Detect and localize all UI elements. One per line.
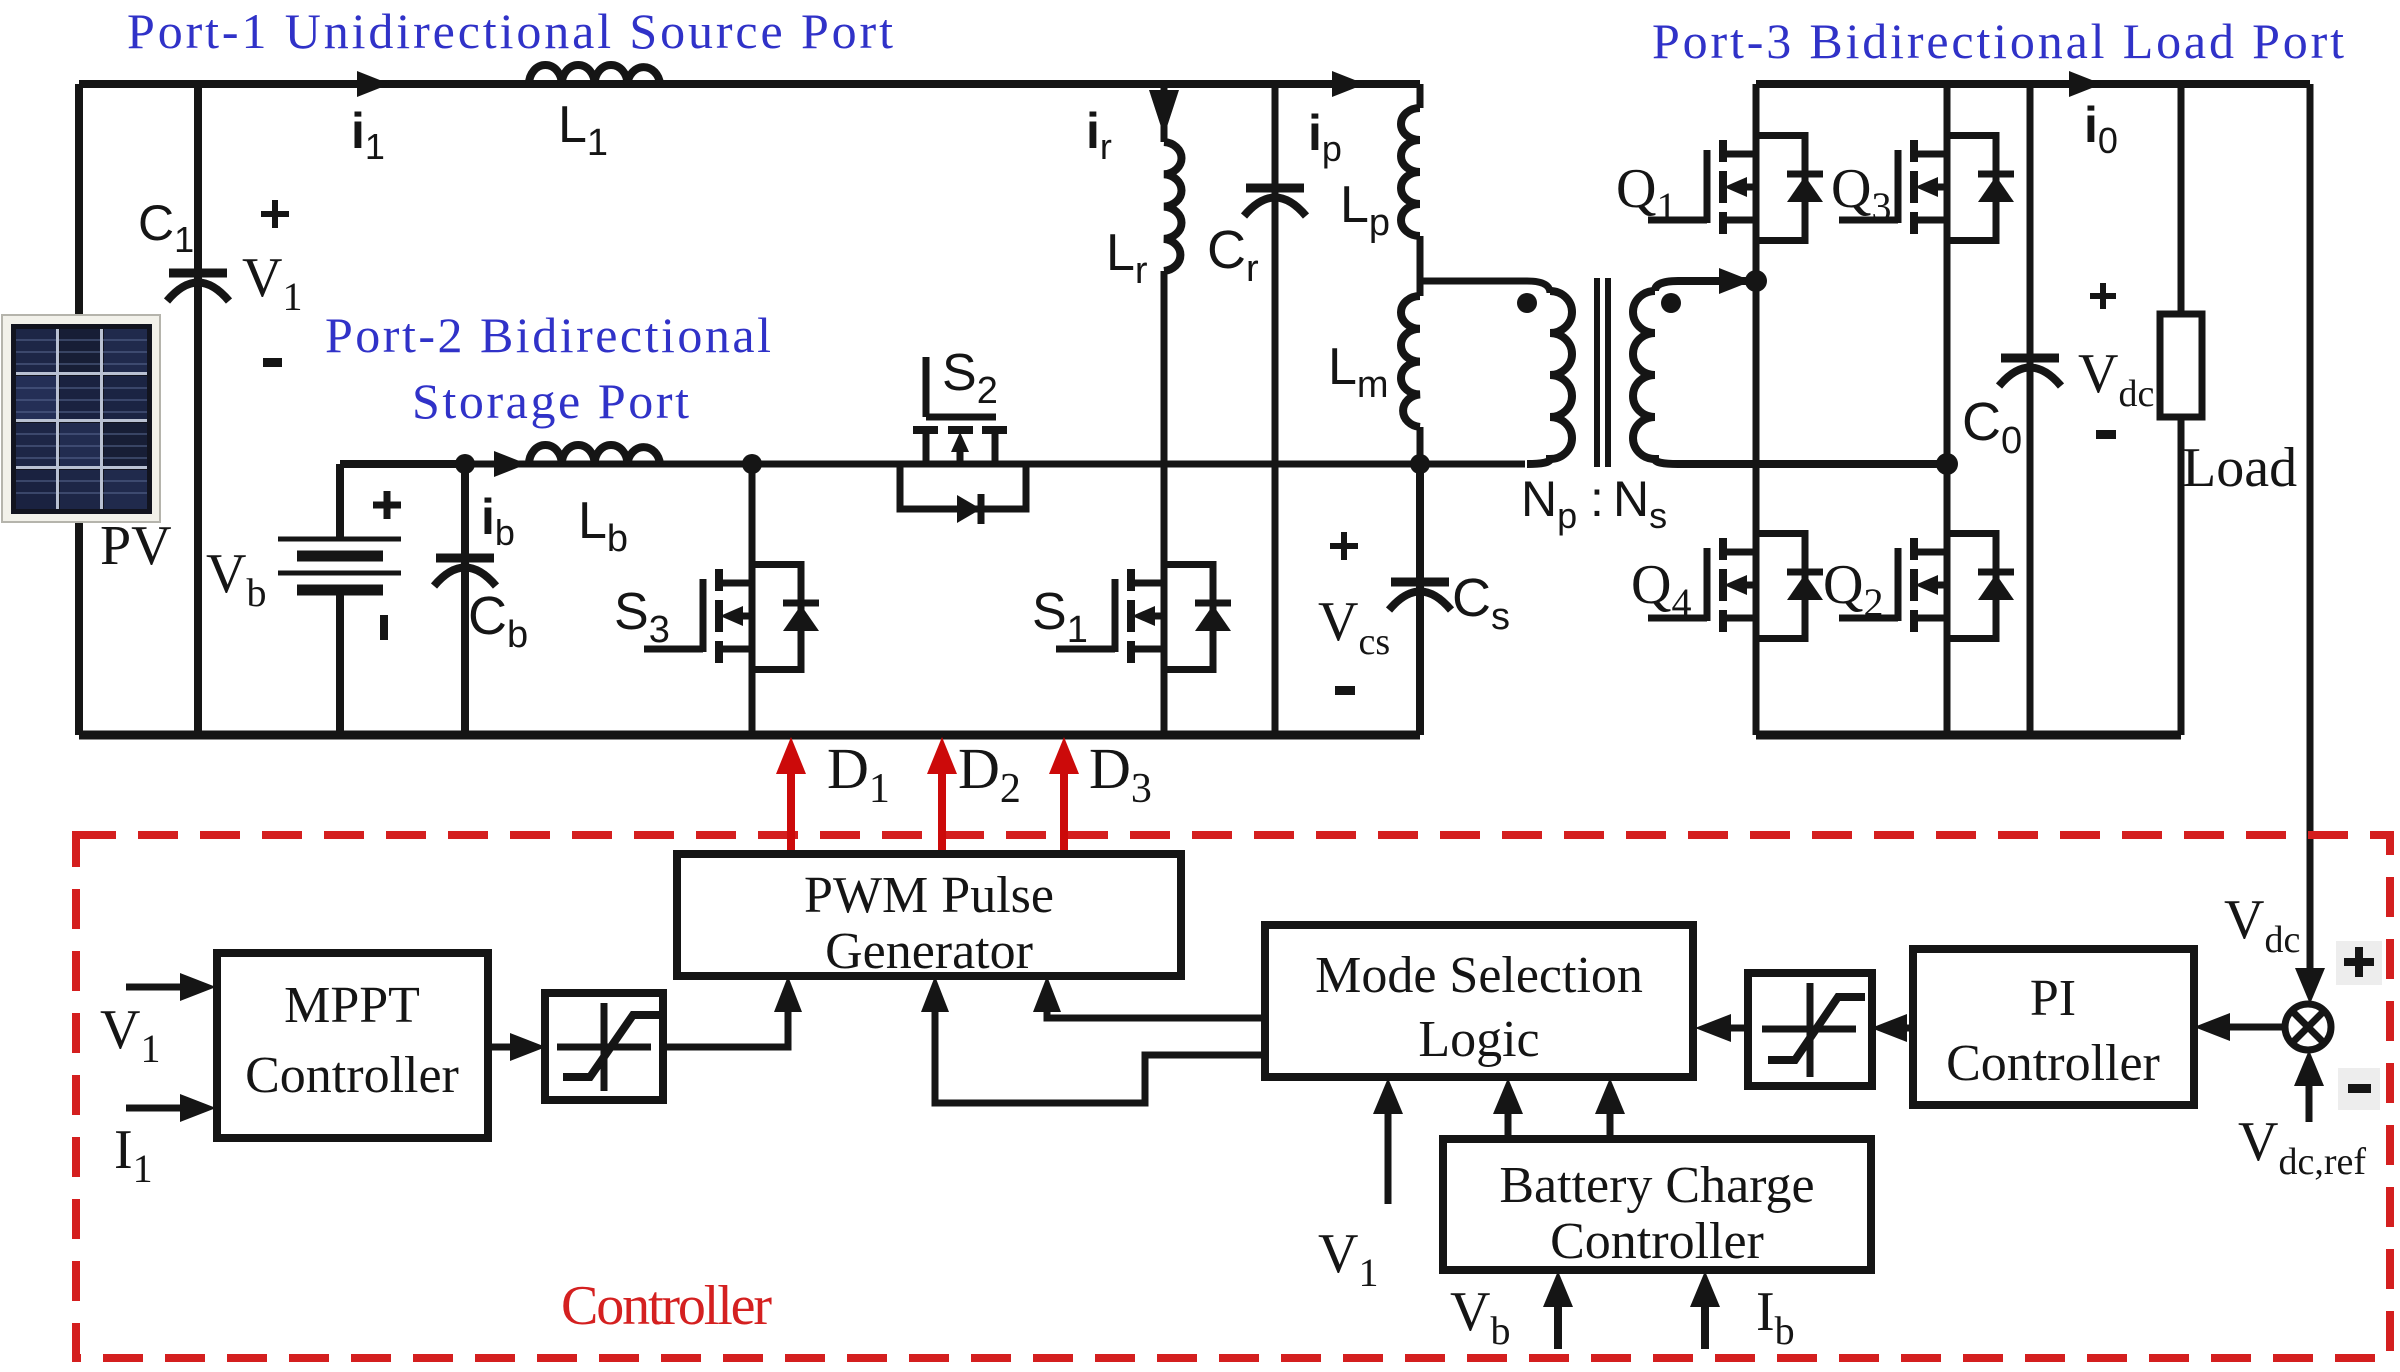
svg-text:Np:Ns: Np:Ns [1521, 471, 1667, 536]
svg-text:Vb: Vb [1450, 1281, 1510, 1353]
inductor Lp [1401, 108, 1420, 236]
wire mid bus [465, 461, 1525, 468]
wire battery branch [340, 464, 465, 735]
node battery junction [455, 454, 475, 474]
label plus Vcs [1330, 532, 1358, 560]
svg-text:Controller: Controller [245, 1047, 459, 1104]
box MPPT Controller [217, 953, 492, 1142]
arrow Vdc into sum [2295, 968, 2325, 1004]
wire Lr to S1 [1161, 271, 1168, 561]
svg-text:D2: D2 [958, 736, 1021, 812]
svg-text:Lr: Lr [1106, 224, 1148, 292]
arrow Vb into BCC [1543, 1271, 1573, 1349]
svg-text:PWM Pulse: PWM Pulse [804, 867, 1054, 924]
wire Q2 leg [1944, 464, 1951, 735]
svg-text:ip: ip [1308, 105, 1342, 169]
inductor L1 [529, 65, 660, 84]
wire MSL to PWM lower [935, 1010, 1265, 1103]
label minus V1 [263, 358, 282, 367]
node primary dot [1517, 293, 1537, 313]
wire Vdc sense vertical [2307, 84, 2314, 975]
svg-text:Load: Load [2182, 437, 2297, 499]
svg-text:D1: D1 [827, 736, 890, 812]
svg-text:ir: ir [1086, 103, 1112, 167]
label plus battery [373, 491, 401, 519]
arrow i0 [2069, 71, 2102, 97]
svg-text:PI: PI [2030, 970, 2076, 1027]
svg-text:V1: V1 [100, 999, 160, 1071]
wire S3 drain leg [749, 464, 756, 561]
box PWM Pulse Generator [677, 854, 1185, 980]
wire S3 source leg [749, 673, 756, 735]
svg-text:Ib: Ib [1756, 1281, 1795, 1353]
capacitor C0 [1999, 358, 2061, 386]
arrow limiter2 to MSL [1695, 1014, 1748, 1042]
svg-text:Vdc: Vdc [2078, 343, 2154, 415]
wire Q3 leg [1944, 84, 1951, 464]
svg-text:S1: S1 [1032, 583, 1088, 651]
svg-text:L1: L1 [558, 96, 608, 164]
svg-text:Lb: Lb [578, 492, 628, 560]
wire C0 branch [2027, 84, 2034, 735]
arrow into PWM bottom 2 [1033, 976, 1061, 1012]
capacitor C1 [167, 273, 229, 301]
svg-text:Controller: Controller [1550, 1213, 1764, 1270]
svg-text:C1: C1 [138, 195, 194, 260]
PV panel image [2, 315, 160, 522]
box Mode Selection Logic [1265, 925, 1697, 1077]
transformer primary winding [1527, 291, 1572, 464]
arrow MPPT to limiter [488, 1033, 546, 1061]
arrow ip [1332, 71, 1365, 97]
svg-text:Cr: Cr [1207, 220, 1259, 290]
label plus sum [2336, 941, 2382, 985]
title Port-2 Bidirectional Storage Port [325, 307, 771, 429]
node secondary dot [1661, 293, 1681, 313]
wire S1 source leg [1161, 673, 1168, 735]
svg-text:Vcs: Vcs [1318, 591, 1390, 663]
svg-text:Q3: Q3 [1831, 158, 1891, 229]
svg-text:Vdc: Vdc [2224, 889, 2300, 961]
svg-text:Controller: Controller [1946, 1035, 2160, 1092]
svg-text:i0: i0 [2084, 97, 2118, 161]
svg-text:Lp: Lp [1340, 176, 1390, 244]
wire secondary top [1655, 281, 1756, 291]
node bridge right mid [1936, 453, 1958, 475]
svg-text:Vb: Vb [206, 543, 266, 615]
svg-text:Mode Selection: Mode Selection [1315, 947, 1643, 1004]
arrow into PWM bottom 3 [921, 976, 949, 1012]
transformer core [1597, 278, 1608, 467]
arrow Ib into BCC [1690, 1271, 1720, 1349]
svg-text:S2: S2 [942, 344, 998, 412]
svg-text:C0: C0 [1962, 392, 2022, 462]
wire Lp Lm branch [1417, 84, 1424, 464]
svg-text:Lm: Lm [1328, 338, 1389, 406]
wire top rail port-3 [1756, 80, 2310, 88]
svg-text:V1: V1 [242, 247, 302, 319]
inductor Lr [1164, 142, 1182, 271]
arrow BCC to MSL 1 [1493, 1078, 1523, 1139]
label minus Vdc [2096, 430, 2116, 439]
arrow V1 into MSL [1373, 1078, 1403, 1204]
svg-text:Port-2 Bidirectional: Port-2 Bidirectional [325, 307, 771, 363]
transistor Q2 [1839, 530, 2014, 642]
wire C1 branch vertical [194, 84, 202, 735]
arrow I1 input [126, 1094, 216, 1122]
wire limiter to PWM [663, 1010, 788, 1047]
arrow ib [494, 451, 527, 477]
transistor S1 [1056, 561, 1231, 673]
capacitor Cb [434, 558, 496, 586]
svg-text:ib: ib [481, 489, 515, 553]
wire Q4 leg [1753, 281, 1760, 735]
wire Cb branch [461, 464, 469, 735]
wire load branch [2178, 84, 2185, 735]
label minus battery [380, 615, 388, 640]
wire MSL to PWM upper [1047, 1010, 1265, 1018]
wire bridge bottom rail [1756, 731, 2181, 740]
svg-text:Controller: Controller [561, 1275, 772, 1337]
wire top rail port-1 [79, 80, 1420, 88]
arrow D3 red [1049, 737, 1079, 854]
wire left vertical [75, 84, 83, 735]
svg-text:MPPT: MPPT [284, 977, 420, 1034]
limiter block 2 [1748, 973, 1872, 1086]
node S3 junction [742, 454, 762, 474]
inductor Lm [1401, 296, 1420, 427]
svg-text:I1: I1 [114, 1119, 153, 1191]
node mid bus junction [1410, 454, 1430, 474]
svg-text:Q2: Q2 [1823, 554, 1883, 625]
svg-text:Cb: Cb [468, 586, 528, 656]
battery Vb [278, 539, 401, 590]
label minus sum [2338, 1068, 2380, 1110]
wire bottom rail [79, 731, 1420, 740]
wire secondary bottom [1678, 460, 1947, 468]
svg-text:Cs: Cs [1452, 568, 1510, 638]
arrow into PWM bottom 1 [774, 976, 802, 1012]
arrow V1 input [126, 973, 216, 1001]
arrow secondary top [1719, 268, 1752, 294]
svg-text:Battery Charge: Battery Charge [1499, 1157, 1814, 1214]
svg-text:Generator: Generator [825, 923, 1033, 980]
wire Q1 leg [1753, 84, 1760, 281]
resistor Load [2160, 314, 2202, 417]
wire Lr branch top [1161, 84, 1168, 142]
label minus Vcs [1335, 686, 1355, 695]
svg-text:PV: PV [100, 515, 172, 577]
transformer secondary winding [1633, 291, 1678, 464]
transistor S2 [900, 357, 1026, 524]
inductor Lb [529, 445, 660, 464]
box Battery Charge Controller [1443, 1139, 1875, 1274]
svg-text:Storage Port: Storage Port [412, 373, 689, 429]
limiter block 1 [545, 993, 663, 1100]
arrow ir [1149, 90, 1179, 136]
arrow D1 red [776, 737, 806, 854]
transistor Q3 [1839, 132, 2014, 244]
wire Cs branch [1416, 464, 1424, 735]
svg-text:Port-1 Unidirectional Source P: Port-1 Unidirectional Source Port [127, 3, 893, 59]
label plus Vdc [2090, 283, 2116, 309]
label plus V1 [261, 200, 289, 228]
box PI Controller [1913, 949, 2198, 1109]
svg-text:V1: V1 [1318, 1223, 1378, 1295]
arrow Vdcref into sum [2294, 1050, 2324, 1122]
svg-text:Port-3 Bidirectional Load Port: Port-3 Bidirectional Load Port [1652, 13, 2344, 69]
wire primary top [1420, 281, 1550, 293]
summing junction [2285, 1004, 2331, 1050]
arrow BCC to MSL 2 [1595, 1078, 1625, 1139]
transistor S3 [644, 561, 819, 673]
svg-text:D3: D3 [1089, 736, 1152, 812]
arrow sum to PI [2194, 1013, 2286, 1041]
svg-text:Q1: Q1 [1616, 158, 1676, 229]
controller dashed red box [76, 835, 2390, 1358]
svg-text:Logic: Logic [1418, 1011, 1539, 1068]
capacitor Cr [1244, 188, 1306, 216]
svg-text:i1: i1 [351, 103, 385, 167]
arrow PI to limiter2 [1871, 1014, 1913, 1042]
svg-text:S3: S3 [614, 583, 670, 651]
node bridge left mid [1745, 270, 1767, 292]
arrow D2 red [927, 737, 957, 854]
svg-text:Vdc,ref: Vdc,ref [2238, 1111, 2366, 1183]
wire Cr branch [1272, 84, 1279, 735]
svg-text:Q4: Q4 [1631, 554, 1691, 625]
transistor Q1 [1648, 132, 1823, 244]
capacitor Cs [1389, 582, 1451, 610]
arrow i1 on top rail [357, 71, 390, 97]
transistor Q4 [1648, 530, 1823, 642]
